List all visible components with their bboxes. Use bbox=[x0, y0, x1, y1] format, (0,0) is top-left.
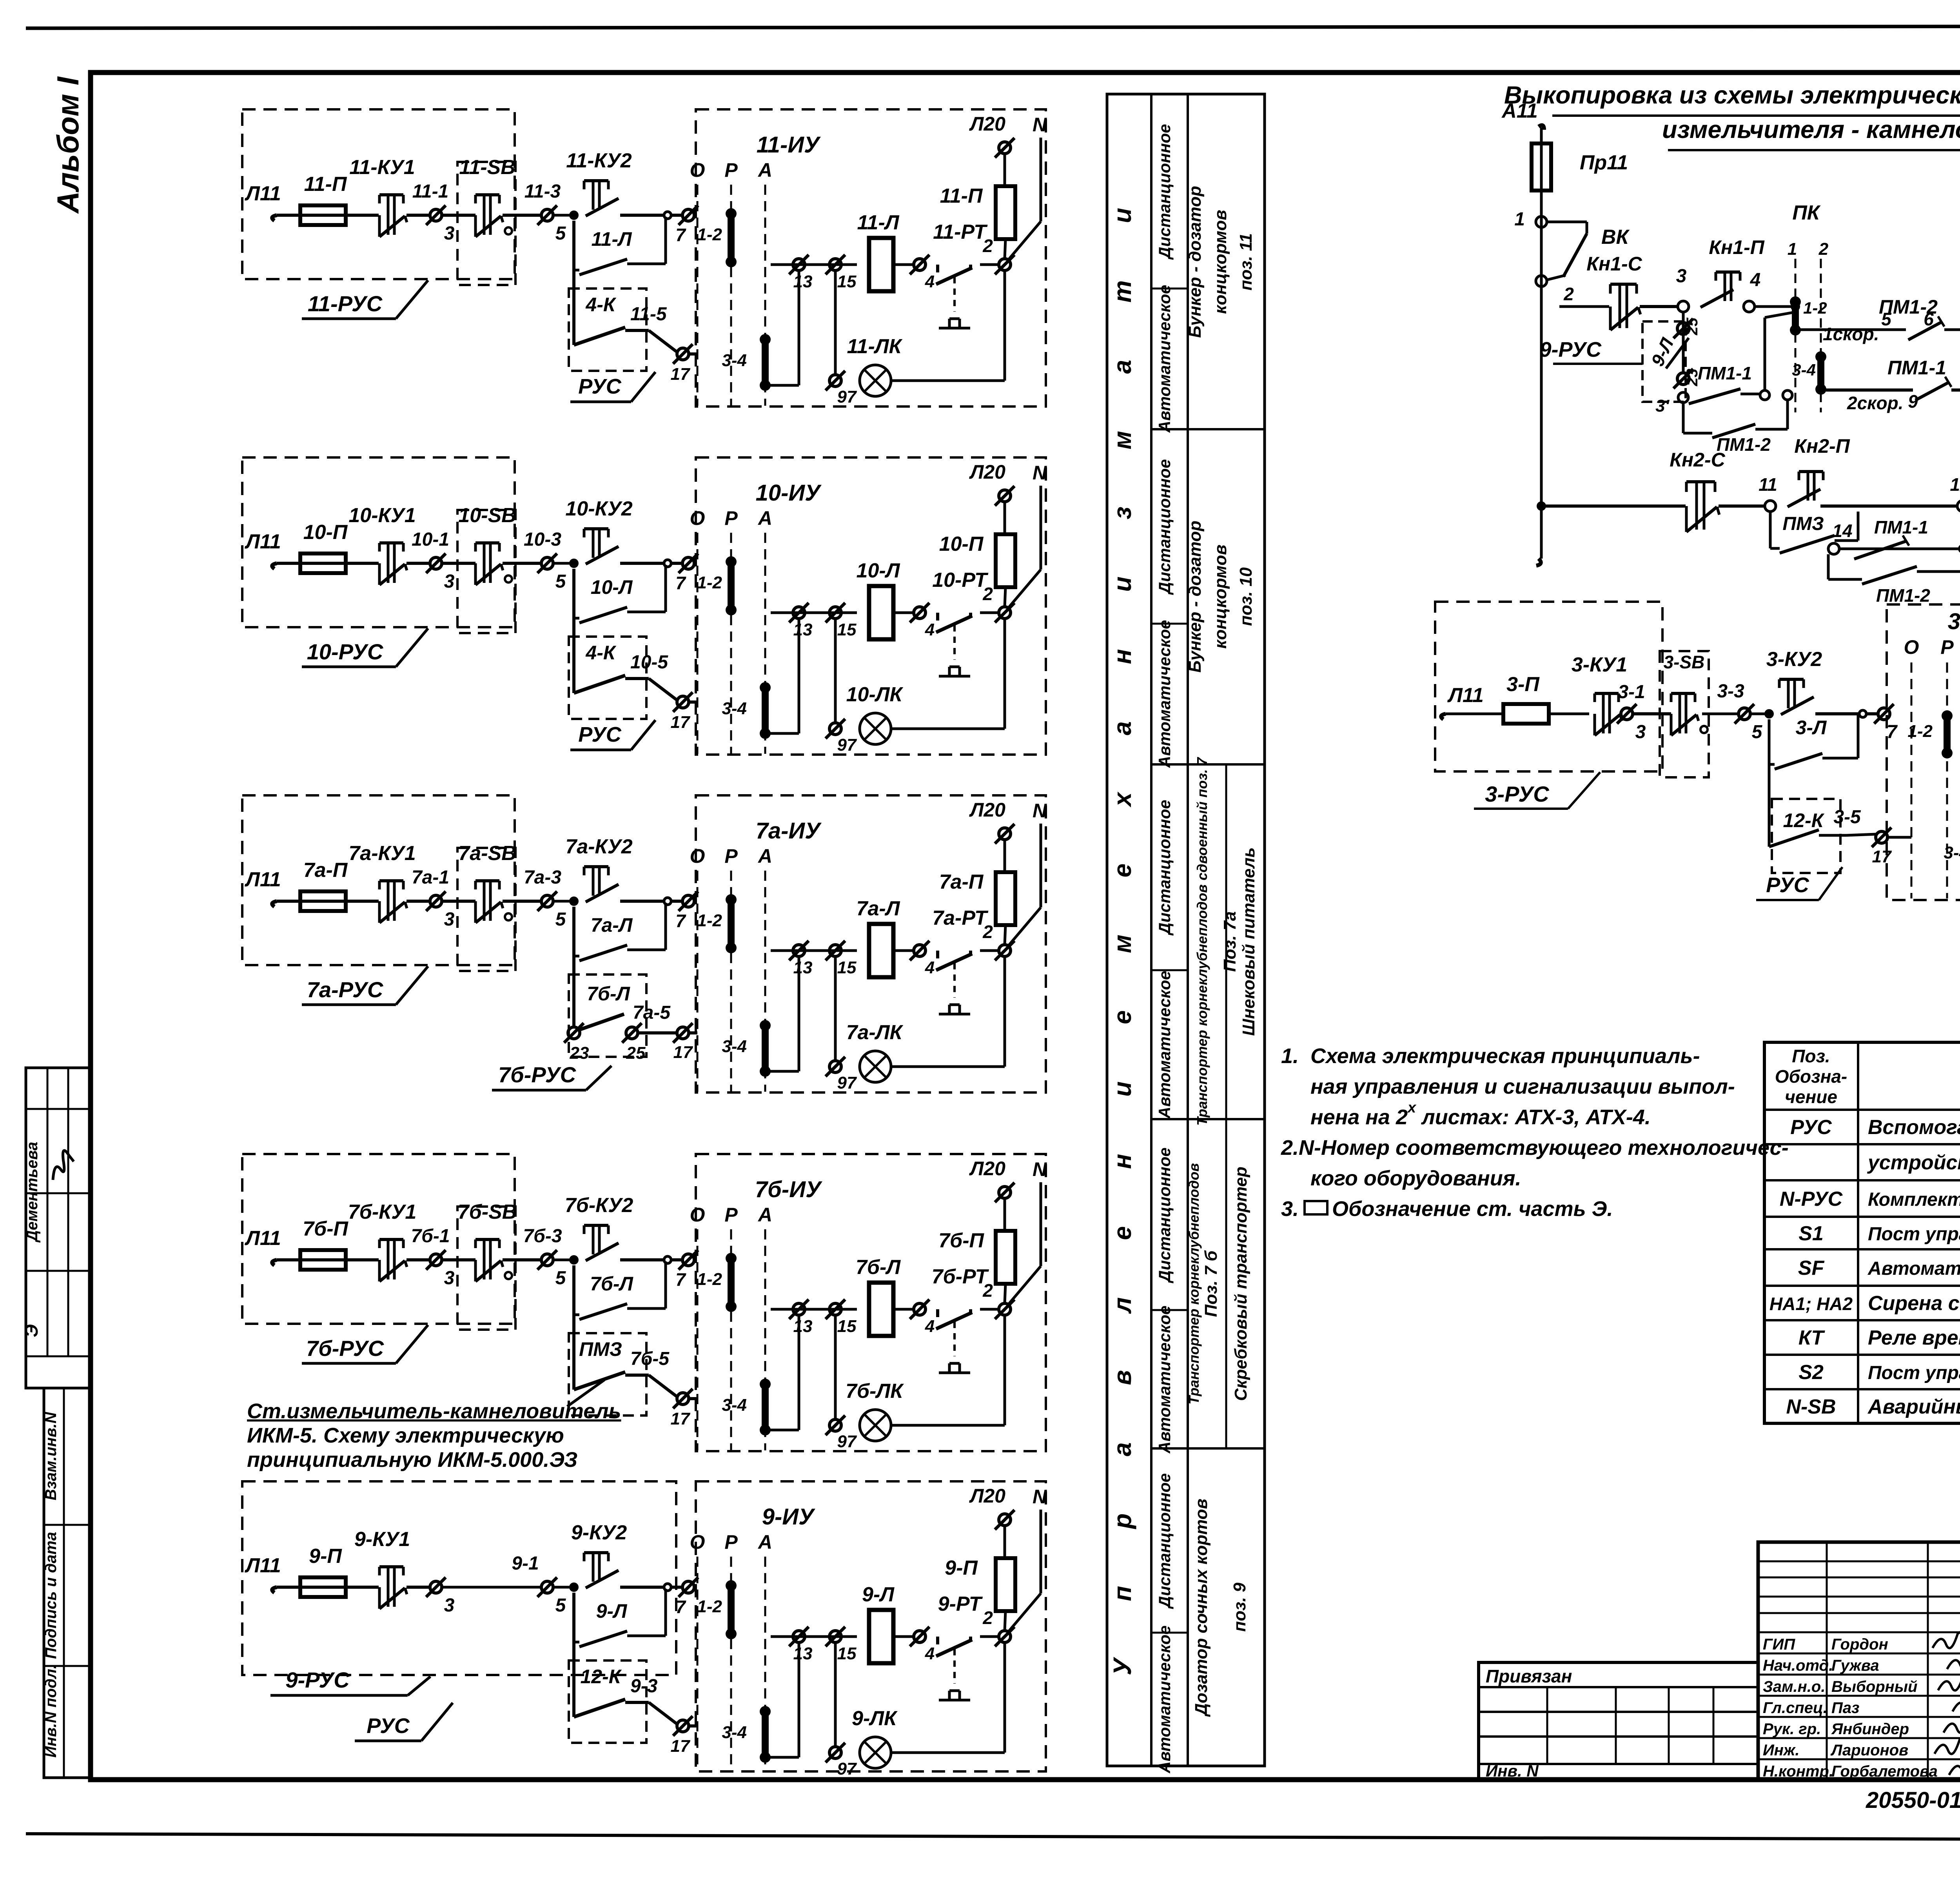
svg-text:1: 1 bbox=[1514, 209, 1525, 230]
svg-text:10-SB: 10-SB bbox=[458, 504, 516, 527]
svg-text:11-Л: 11-Л bbox=[592, 228, 633, 250]
svg-text:3-КУ2: 3-КУ2 bbox=[1766, 648, 1822, 671]
svg-text:3-4: 3-4 bbox=[722, 1723, 747, 1742]
svg-text:5: 5 bbox=[555, 571, 566, 592]
svg-text:4: 4 bbox=[925, 1317, 935, 1336]
svg-text:ная управления и сигнализации: ная управления и сигнализации выпол- bbox=[1310, 1075, 1735, 1098]
svg-text:Нач.отд.: Нач.отд. bbox=[1763, 1657, 1833, 1674]
svg-text:4: 4 bbox=[925, 272, 935, 291]
svg-text:9-КУ2: 9-КУ2 bbox=[571, 1521, 627, 1544]
svg-text:3-4: 3-4 bbox=[722, 1395, 747, 1415]
svg-text:НА1; НА2: НА1; НА2 bbox=[1769, 1294, 1853, 1314]
svg-text:Аварийный пост местного управ: Аварийный пост местного управления bbox=[1867, 1395, 1960, 1418]
svg-text:12-К: 12-К bbox=[1783, 809, 1824, 831]
svg-text:11: 11 bbox=[1759, 474, 1777, 495]
svg-text:9-1: 9-1 bbox=[512, 1553, 539, 1574]
svg-text:9-РУС: 9-РУС bbox=[1539, 338, 1602, 361]
svg-text:ПМ1-2: ПМ1-2 bbox=[1876, 585, 1930, 606]
svg-text:9-РТ: 9-РТ bbox=[938, 1593, 983, 1615]
svg-text:9-П: 9-П bbox=[945, 1557, 978, 1579]
svg-text:7: 7 bbox=[675, 1269, 686, 1290]
svg-text:7а-ИУ: 7а-ИУ bbox=[756, 818, 822, 844]
svg-text:11-3: 11-3 bbox=[524, 181, 561, 202]
svg-text:Э: Э bbox=[21, 1324, 42, 1337]
svg-text:Л20: Л20 bbox=[969, 1485, 1005, 1507]
svg-text:Кн1-П: Кн1-П bbox=[1709, 236, 1764, 258]
svg-text:9: 9 bbox=[1908, 391, 1918, 412]
svg-text:Л20: Л20 bbox=[969, 1158, 1005, 1180]
svg-text:Вспомогательное комплектное: Вспомогательное комплектное bbox=[1868, 1116, 1960, 1139]
svg-text:Паз: Паз bbox=[1831, 1699, 1859, 1717]
svg-text:2.N-Номер соответствующего тех: 2.N-Номер соответствующего технологичес- bbox=[1281, 1136, 1789, 1160]
svg-text:7а-РУС: 7а-РУС bbox=[307, 977, 384, 1002]
svg-text:РУС: РУС bbox=[578, 375, 622, 398]
svg-text:Автоматическое: Автоматическое bbox=[1155, 971, 1174, 1119]
svg-text:13: 13 bbox=[793, 1317, 813, 1336]
svg-text:7б-Л: 7б-Л bbox=[587, 983, 630, 1005]
svg-text:Гл.спец.: Гл.спец. bbox=[1763, 1699, 1828, 1717]
svg-text:7б-РТ: 7б-РТ bbox=[932, 1265, 989, 1288]
svg-text:О: О bbox=[690, 159, 705, 181]
svg-text:3: 3 bbox=[444, 571, 455, 592]
svg-text:Дистанционное: Дистанционное bbox=[1155, 124, 1174, 260]
svg-text:принципиальную ИКМ-5.000.ЭЗ: принципиальную ИКМ-5.000.ЭЗ bbox=[247, 1448, 577, 1472]
svg-text:3-4: 3-4 bbox=[722, 351, 747, 370]
svg-text:Дементьева: Дементьева bbox=[24, 1142, 41, 1243]
svg-text:97: 97 bbox=[837, 735, 857, 755]
svg-text:3-4: 3-4 bbox=[722, 699, 747, 718]
svg-text:4: 4 bbox=[925, 620, 935, 639]
svg-text:Подпись и дата: Подпись и дата bbox=[42, 1532, 60, 1659]
svg-text:РУС: РУС bbox=[1766, 873, 1809, 897]
svg-text:7а-1: 7а-1 bbox=[412, 867, 449, 888]
svg-text:поз. 9: поз. 9 bbox=[1230, 1582, 1249, 1632]
svg-text:Автоматическое: Автоматическое bbox=[1155, 620, 1174, 768]
svg-text:Привязан: Привязан bbox=[1486, 1666, 1572, 1686]
svg-text:23: 23 bbox=[570, 1043, 589, 1063]
svg-text:11-5: 11-5 bbox=[630, 304, 667, 325]
svg-text:N-SB: N-SB bbox=[1786, 1395, 1836, 1418]
svg-text:N-РУС: N-РУС bbox=[1780, 1188, 1843, 1210]
svg-text:5: 5 bbox=[1752, 722, 1763, 742]
svg-text:кого оборудования.: кого оборудования. bbox=[1310, 1167, 1521, 1190]
svg-text:N: N bbox=[1033, 462, 1047, 484]
svg-text:5: 5 bbox=[555, 1268, 566, 1288]
svg-text:7б-SB: 7б-SB bbox=[458, 1201, 517, 1223]
svg-text:7б-Л: 7б-Л bbox=[590, 1273, 633, 1295]
svg-text:1-2: 1-2 bbox=[697, 225, 722, 244]
svg-text:4-К: 4-К bbox=[585, 294, 616, 316]
svg-text:Комплектное устройство управле: Комплектное устройство управления РУС 51… bbox=[1868, 1189, 1960, 1210]
svg-text:7б-3: 7б-3 bbox=[523, 1226, 562, 1247]
svg-text:3: 3 bbox=[444, 223, 455, 244]
svg-text:Пост управления ПКУ15-19.221-5: Пост управления ПКУ15-19.221-54У2 ТУ16-5… bbox=[1868, 1363, 1960, 1383]
svg-text:Кн2-С: Кн2-С bbox=[1670, 449, 1725, 471]
svg-text:10-5: 10-5 bbox=[630, 652, 668, 673]
svg-text:ПМ1-2: ПМ1-2 bbox=[1879, 296, 1938, 318]
svg-text:7а-П: 7а-П bbox=[303, 859, 348, 882]
svg-text:Р: Р bbox=[724, 1204, 738, 1226]
svg-text:ПМЗ: ПМЗ bbox=[1782, 514, 1824, 534]
svg-text:10-Л: 10-Л bbox=[591, 576, 633, 598]
svg-text:11-1: 11-1 bbox=[412, 181, 449, 202]
svg-text:3-3: 3-3 bbox=[1717, 681, 1744, 702]
svg-text:Инв. N: Инв. N bbox=[1486, 1762, 1539, 1780]
svg-text:измельчителя - камнеловителя: измельчителя - камнеловителя ИКМ-5 bbox=[1662, 116, 1960, 143]
svg-text:Р: Р bbox=[724, 507, 738, 529]
svg-text:Инв.N подл.: Инв.N подл. bbox=[42, 1664, 60, 1758]
svg-text:Выборный: Выборный bbox=[1831, 1678, 1917, 1695]
svg-text:У п р а в л е н и е м е х: У п р а в л е н и е м е х а н и з м а т … bbox=[1108, 183, 1136, 1675]
svg-text:А: А bbox=[757, 159, 772, 181]
svg-text:11-П: 11-П bbox=[940, 185, 983, 207]
svg-text:3-4: 3-4 bbox=[1944, 843, 1960, 862]
svg-text:Р: Р bbox=[724, 1531, 738, 1553]
svg-text:РУС: РУС bbox=[1790, 1116, 1832, 1139]
svg-text:17: 17 bbox=[671, 713, 691, 732]
svg-text:7: 7 bbox=[675, 911, 686, 931]
svg-text:Поз. 7а: Поз. 7а bbox=[1220, 911, 1240, 972]
svg-text:3-5: 3-5 bbox=[1833, 807, 1861, 827]
svg-text:Л11: Л11 bbox=[244, 182, 281, 205]
svg-text:3: 3 bbox=[444, 1595, 455, 1616]
svg-text:9-Л: 9-Л bbox=[596, 1600, 628, 1622]
svg-text:13: 13 bbox=[793, 1644, 813, 1663]
svg-text:Ст.измельчитель-камнеловитель: Ст.измельчитель-камнеловитель bbox=[247, 1399, 621, 1423]
svg-text:Инж.: Инж. bbox=[1763, 1742, 1800, 1759]
svg-text:3: 3 bbox=[1676, 266, 1687, 287]
svg-text:14: 14 bbox=[1832, 521, 1852, 541]
svg-text:7а-Л: 7а-Л bbox=[857, 897, 900, 920]
svg-text:3: 3 bbox=[444, 909, 455, 930]
svg-text:А: А bbox=[757, 845, 772, 867]
svg-text:А: А bbox=[757, 1204, 772, 1226]
svg-text:3-ИУ: 3-ИУ bbox=[1948, 609, 1960, 634]
svg-text:КТ: КТ bbox=[1798, 1327, 1826, 1349]
svg-text:7б-ИУ: 7б-ИУ bbox=[755, 1177, 822, 1202]
svg-text:Автоматическое: Автоматическое bbox=[1155, 1625, 1174, 1773]
svg-text:11-ИУ: 11-ИУ bbox=[757, 132, 821, 158]
svg-text:10-РТ: 10-РТ bbox=[932, 569, 989, 592]
svg-text:Л11: Л11 bbox=[244, 868, 281, 891]
svg-text:поз. 11: поз. 11 bbox=[1236, 233, 1256, 290]
svg-text:ПМ1-1: ПМ1-1 bbox=[1698, 363, 1752, 383]
svg-text:7б-П: 7б-П bbox=[303, 1218, 348, 1240]
svg-text:17: 17 bbox=[671, 365, 691, 384]
svg-text:7а-КУ1: 7а-КУ1 bbox=[348, 842, 416, 865]
svg-text:3-4: 3-4 bbox=[722, 1037, 747, 1056]
svg-text:9-КУ1: 9-КУ1 bbox=[354, 1528, 410, 1551]
svg-text:12-К: 12-К bbox=[580, 1666, 622, 1688]
svg-text:10-3: 10-3 bbox=[524, 529, 561, 550]
svg-text:97: 97 bbox=[837, 387, 857, 406]
svg-text:3-КУ1: 3-КУ1 bbox=[1572, 653, 1627, 676]
svg-text:Дистанционное: Дистанционное bbox=[1155, 1473, 1174, 1609]
svg-text:10-КУ2: 10-КУ2 bbox=[565, 497, 632, 520]
svg-text:3: 3 bbox=[444, 1268, 455, 1288]
svg-text:Обозначение ст. часть Э.: Обозначение ст. часть Э. bbox=[1332, 1197, 1613, 1221]
svg-text:Автоматический выключатель ЛК6: Автоматический выключатель ЛК63-2М ТУ16-… bbox=[1867, 1258, 1960, 1279]
svg-text:7: 7 bbox=[1887, 722, 1898, 742]
svg-text:Дозатор сочных кортов: Дозатор сочных кортов bbox=[1192, 1499, 1211, 1717]
svg-text:Р: Р bbox=[1940, 636, 1954, 658]
svg-text:7а-РТ: 7а-РТ bbox=[932, 907, 989, 929]
svg-text:SF: SF bbox=[1798, 1257, 1825, 1279]
svg-text:7б-РУС: 7б-РУС bbox=[306, 1336, 385, 1361]
svg-text:Поз.: Поз. bbox=[1792, 1046, 1830, 1066]
svg-text:3': 3' bbox=[1655, 396, 1670, 416]
svg-text:Выкопировка из схемы электриче: Выкопировка из схемы электрической принц… bbox=[1504, 82, 1960, 109]
svg-text:13: 13 bbox=[793, 958, 813, 977]
svg-text:Л11: Л11 bbox=[244, 1554, 281, 1577]
svg-text:25: 25 bbox=[626, 1043, 646, 1063]
svg-text:ПМ1-1: ПМ1-1 bbox=[1874, 517, 1928, 537]
svg-text:7а-3: 7а-3 bbox=[524, 867, 561, 888]
svg-text:7б-КУ2: 7б-КУ2 bbox=[565, 1194, 633, 1217]
svg-text:17: 17 bbox=[671, 1737, 691, 1756]
svg-text:Автоматическое: Автоматическое bbox=[1155, 285, 1174, 433]
svg-text:7а-5: 7а-5 bbox=[633, 1002, 671, 1023]
svg-text:S1: S1 bbox=[1798, 1222, 1824, 1245]
svg-text:97: 97 bbox=[837, 1073, 857, 1092]
svg-text:ПМЗ: ПМЗ bbox=[579, 1338, 622, 1360]
svg-text:7: 7 bbox=[675, 225, 686, 245]
svg-text:10-П: 10-П bbox=[303, 521, 348, 544]
svg-text:Л11: Л11 bbox=[1447, 684, 1484, 707]
svg-text:Транспортер корнеклубнеплодов: Транспортер корнеклубнеплодов bbox=[1186, 1163, 1202, 1405]
svg-text:5: 5 bbox=[555, 223, 566, 244]
svg-text:концкормов: концкормов bbox=[1211, 210, 1230, 314]
svg-text:ГИП: ГИП bbox=[1763, 1636, 1795, 1653]
svg-text:Скребковый транспортер: Скребковый транспортер bbox=[1231, 1167, 1250, 1401]
svg-text:О: О bbox=[690, 845, 705, 867]
svg-text:Взам.инв.N: Взам.инв.N bbox=[42, 1412, 60, 1500]
svg-text:ИКМ-5. Схему электрическую: ИКМ-5. Схему электрическую bbox=[247, 1424, 564, 1447]
svg-text:11-КУ1: 11-КУ1 bbox=[349, 156, 415, 179]
svg-text:20550-01: 20550-01 bbox=[1866, 1787, 1960, 1813]
svg-text:3-SB: 3-SB bbox=[1664, 652, 1705, 672]
svg-text:Дистанционное: Дистанционное bbox=[1155, 459, 1174, 595]
svg-text:10-КУ1: 10-КУ1 bbox=[348, 504, 416, 527]
svg-text:9-ИУ: 9-ИУ bbox=[762, 1504, 815, 1530]
svg-text:Пост управления ПКУ15-19.231-5: Пост управления ПКУ15-19.231-54У2 ТУ16-5… bbox=[1868, 1224, 1960, 1245]
svg-text:Л20: Л20 bbox=[969, 799, 1005, 821]
svg-text:Обозна-: Обозна- bbox=[1775, 1066, 1847, 1087]
svg-text:11-ЛК: 11-ЛК bbox=[847, 335, 903, 358]
svg-text:2: 2 bbox=[982, 236, 993, 256]
svg-text:2: 2 bbox=[1818, 240, 1829, 259]
svg-text:Л20: Л20 bbox=[969, 113, 1005, 135]
svg-text:Гужва: Гужва bbox=[1831, 1657, 1879, 1674]
svg-text:О: О bbox=[1904, 636, 1919, 658]
svg-text:7: 7 bbox=[675, 1597, 686, 1617]
svg-text:2скор.: 2скор. bbox=[1847, 393, 1903, 413]
svg-text:А11: А11 bbox=[1501, 100, 1538, 122]
svg-text:1-2: 1-2 bbox=[1803, 299, 1827, 317]
svg-text:2: 2 bbox=[982, 1280, 993, 1301]
svg-text:2: 2 bbox=[982, 922, 993, 942]
svg-text:7б-5: 7б-5 bbox=[630, 1348, 670, 1369]
svg-text:10-Л: 10-Л bbox=[857, 559, 900, 582]
svg-text:9-РУС: 9-РУС bbox=[285, 1668, 350, 1692]
svg-text:4-К: 4-К bbox=[585, 642, 616, 664]
svg-text:3.: 3. bbox=[1281, 1197, 1299, 1221]
svg-text:Р: Р bbox=[724, 159, 738, 181]
svg-text:15: 15 bbox=[837, 1644, 857, 1663]
svg-text:Бункер - дозатор: Бункер - дозатор bbox=[1185, 186, 1205, 338]
svg-text:4: 4 bbox=[925, 1644, 935, 1663]
svg-text:12: 12 bbox=[1950, 474, 1960, 495]
svg-text:25: 25 bbox=[1684, 318, 1701, 336]
svg-text:Л11: Л11 bbox=[244, 1227, 281, 1250]
svg-text:1-2: 1-2 bbox=[697, 1597, 722, 1616]
svg-text:N: N bbox=[1033, 1486, 1047, 1508]
svg-text:5: 5 bbox=[555, 909, 566, 930]
svg-text:11-РТ: 11-РТ bbox=[933, 221, 988, 243]
svg-text:1-2: 1-2 bbox=[1907, 722, 1933, 741]
svg-text:17: 17 bbox=[1872, 847, 1892, 866]
svg-text:Р: Р bbox=[724, 845, 738, 867]
svg-text:устройство управления РУС 950: устройство управления РУС 9507-00Г2 bbox=[1867, 1151, 1960, 1174]
svg-text:Зам.н.о.: Зам.н.о. bbox=[1763, 1678, 1825, 1695]
svg-text:11-Л: 11-Л bbox=[857, 211, 899, 234]
svg-text:концкормов: концкормов bbox=[1211, 544, 1230, 649]
svg-text:Кн2-П: Кн2-П bbox=[1794, 435, 1850, 457]
svg-text:1скор.: 1скор. bbox=[1823, 324, 1879, 344]
svg-text:9-Л: 9-Л bbox=[862, 1583, 895, 1606]
svg-text:11-КУ2: 11-КУ2 bbox=[566, 149, 632, 172]
svg-text:3-4: 3-4 bbox=[1792, 361, 1816, 379]
svg-text:4: 4 bbox=[1750, 270, 1761, 290]
svg-text:15: 15 bbox=[837, 272, 857, 291]
svg-text:11-П: 11-П bbox=[304, 173, 347, 196]
svg-text:15: 15 bbox=[837, 620, 857, 639]
svg-text:1-2: 1-2 bbox=[697, 911, 722, 930]
svg-text:7б-1: 7б-1 bbox=[411, 1226, 450, 1247]
svg-text:17: 17 bbox=[673, 1043, 693, 1062]
svg-text:Шнековый питатель: Шнековый питатель bbox=[1239, 847, 1258, 1036]
svg-text:Гордон: Гордон bbox=[1831, 1636, 1888, 1653]
svg-text:3-П: 3-П bbox=[1506, 673, 1540, 696]
svg-text:Кн1-С: Кн1-С bbox=[1586, 253, 1642, 275]
svg-text:2: 2 bbox=[982, 584, 993, 604]
svg-text:чение: чение bbox=[1785, 1087, 1837, 1107]
svg-text:А: А bbox=[757, 507, 772, 529]
svg-text:10-ИУ: 10-ИУ bbox=[756, 480, 822, 506]
svg-text:Горбалетова: Горбалетова bbox=[1831, 1763, 1938, 1780]
svg-text:Н.контр.: Н.контр. bbox=[1763, 1763, 1833, 1780]
svg-text:13: 13 bbox=[793, 620, 813, 639]
svg-text:10-РУС: 10-РУС bbox=[307, 639, 384, 664]
svg-text:1: 1 bbox=[1788, 240, 1797, 259]
svg-text:О: О bbox=[690, 1204, 705, 1226]
svg-text:7б-РУС: 7б-РУС bbox=[498, 1062, 577, 1087]
svg-text:7а-Л: 7а-Л bbox=[591, 914, 633, 936]
svg-text:О: О bbox=[690, 1531, 705, 1553]
svg-text:7а-П: 7а-П bbox=[939, 871, 984, 893]
svg-text:А: А bbox=[757, 1531, 772, 1553]
svg-text:Рук. гр.: Рук. гр. bbox=[1763, 1720, 1821, 1738]
svg-text:3: 3 bbox=[1635, 722, 1646, 742]
svg-text:Реле времени РВП72-3221 УХЛ4 Т: Реле времени РВП72-3221 УХЛ4 ТУ16-523.47… bbox=[1868, 1327, 1960, 1349]
svg-text:поз. 10: поз. 10 bbox=[1236, 567, 1256, 626]
svg-text:РУС: РУС bbox=[578, 723, 622, 746]
svg-text:S2: S2 bbox=[1798, 1361, 1824, 1384]
svg-text:1.: 1. bbox=[1281, 1044, 1299, 1068]
svg-text:Транспортер корнеклубнеплодов: Транспортер корнеклубнеплодов сдвоенный … bbox=[1194, 757, 1210, 1126]
svg-text:15: 15 bbox=[837, 1317, 857, 1336]
svg-text:Дистанционное: Дистанционное bbox=[1155, 1147, 1174, 1283]
svg-text:Сирена сигнальная СС-1 ТУ16-: Сирена сигнальная СС-1 ТУ16-539.383-79 bbox=[1868, 1292, 1960, 1315]
svg-text:2: 2 bbox=[982, 1608, 993, 1628]
svg-text:Бункер - дозатор: Бункер - дозатор bbox=[1185, 521, 1205, 673]
svg-text:10-1: 10-1 bbox=[412, 529, 449, 550]
svg-text:7б-Л: 7б-Л bbox=[856, 1256, 901, 1279]
svg-text:15: 15 bbox=[837, 958, 857, 977]
svg-text:10-П: 10-П bbox=[939, 533, 984, 555]
svg-text:7б-ЛК: 7б-ЛК bbox=[846, 1380, 904, 1403]
svg-text:11-SB: 11-SB bbox=[459, 156, 515, 179]
svg-text:РУС: РУС bbox=[367, 1714, 410, 1738]
svg-text:N: N bbox=[1033, 1158, 1047, 1180]
svg-text:7б-П: 7б-П bbox=[938, 1229, 984, 1252]
svg-text:Поз. 7 б: Поз. 7 б bbox=[1201, 1250, 1221, 1317]
svg-text:9-П: 9-П bbox=[309, 1545, 342, 1568]
svg-text:О: О bbox=[690, 507, 705, 529]
svg-text:7а-КУ2: 7а-КУ2 bbox=[565, 835, 632, 858]
svg-text:9-ЛК: 9-ЛК bbox=[852, 1707, 898, 1730]
svg-text:5: 5 bbox=[555, 1595, 566, 1616]
svg-text:Альбом I: Альбом I bbox=[51, 76, 85, 214]
svg-text:97: 97 bbox=[837, 1759, 857, 1778]
svg-text:Схема электрическая принципиал: Схема электрическая принципиаль- bbox=[1310, 1044, 1700, 1068]
svg-text:97: 97 bbox=[837, 1432, 857, 1451]
svg-text:10-ЛК: 10-ЛК bbox=[846, 683, 904, 706]
svg-text:3-1: 3-1 bbox=[1618, 682, 1645, 702]
svg-text:17: 17 bbox=[671, 1409, 691, 1428]
svg-text:Янбиндер: Янбиндер bbox=[1831, 1720, 1909, 1738]
svg-text:1-2: 1-2 bbox=[697, 573, 722, 592]
svg-text:3-Л: 3-Л bbox=[1796, 717, 1827, 739]
svg-text:1-2: 1-2 bbox=[697, 1270, 722, 1289]
svg-text:Л20: Л20 bbox=[969, 461, 1005, 483]
svg-text:Л11: Л11 bbox=[244, 530, 281, 553]
svg-text:7а-SB: 7а-SB bbox=[458, 842, 516, 865]
svg-text:9-3: 9-3 bbox=[630, 1676, 658, 1697]
svg-text:Пр11: Пр11 bbox=[1580, 151, 1628, 174]
svg-text:N: N bbox=[1033, 114, 1047, 136]
svg-text:ПМ1-1: ПМ1-1 bbox=[1887, 357, 1946, 379]
svg-text:4: 4 bbox=[925, 958, 935, 977]
svg-text:7: 7 bbox=[675, 573, 686, 593]
svg-text:11-РУС: 11-РУС bbox=[308, 291, 383, 316]
svg-text:Дистанционное: Дистанционное bbox=[1155, 800, 1174, 936]
svg-text:Ларионов: Ларионов bbox=[1830, 1742, 1908, 1759]
svg-text:ВК: ВК bbox=[1601, 226, 1630, 249]
svg-text:Автоматическое: Автоматическое bbox=[1155, 1305, 1174, 1454]
svg-text:3-РУС: 3-РУС bbox=[1485, 782, 1550, 806]
svg-text:7а-ЛК: 7а-ЛК bbox=[846, 1021, 904, 1044]
svg-text:13: 13 bbox=[793, 272, 813, 291]
svg-text:N: N bbox=[1033, 800, 1047, 822]
svg-text:ПК: ПК bbox=[1792, 201, 1820, 224]
svg-text:2: 2 bbox=[1563, 284, 1574, 304]
svg-text:7б-КУ1: 7б-КУ1 bbox=[348, 1201, 417, 1223]
